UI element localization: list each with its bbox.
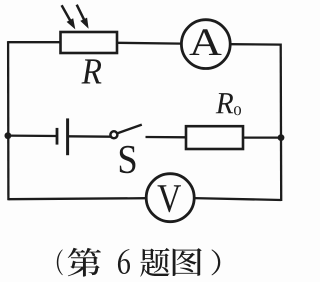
wire: left rail, top-left corner to bottom-left corner [7,41,10,200]
voltmeter V circle [146,174,194,222]
caption character 图 [173,248,202,276]
light arrow 1 head [67,18,76,29]
wire: voltmeter to bottom-right corner [194,198,281,200]
label S for switch [120,146,136,173]
ammeter A circle [181,20,230,69]
wire: ammeter to top-right corner [231,43,282,46]
wire: top-left segment, left rail corner to photoresistor R [8,41,61,43]
resistor R0 body [186,126,243,149]
light arrow 2 shaft [77,5,86,23]
wire: switch to resistor R0 [146,136,187,139]
label R0: italic R part [216,93,233,113]
light arrow 2 head [80,18,88,29]
caption close parenthesis ） [211,249,220,275]
battery positive plate (long) [66,118,69,155]
node: left junction dot [5,132,12,139]
switch S lever arm [117,125,142,134]
photoresistor R body [61,32,118,53]
wire: bottom segment, bottom-left corner to voltmeter [8,198,146,199]
switch S pivot circle [110,131,117,138]
wire: resistor R0 to right junction [243,136,281,138]
label R for photoresistor [82,59,102,83]
light arrow 1 shaft [62,5,72,23]
caption digit 6 [118,249,130,274]
wire: right rail, top-right corner to bottom-right corner [280,44,283,202]
node: right junction dot [278,134,285,141]
label R0: subscript 0 [234,106,241,115]
caption character 题 [140,248,169,277]
label A inside ammeter [190,29,222,55]
wire: battery positive plate to switch [68,135,112,138]
caption open parenthesis （ [57,249,63,275]
wire: photoresistor R to ammeter [117,42,181,45]
battery negative plate (short) [56,128,59,145]
wire: middle branch, left junction to battery [8,134,57,137]
label V inside voltmeter [157,185,181,212]
caption character 第 [68,248,101,277]
